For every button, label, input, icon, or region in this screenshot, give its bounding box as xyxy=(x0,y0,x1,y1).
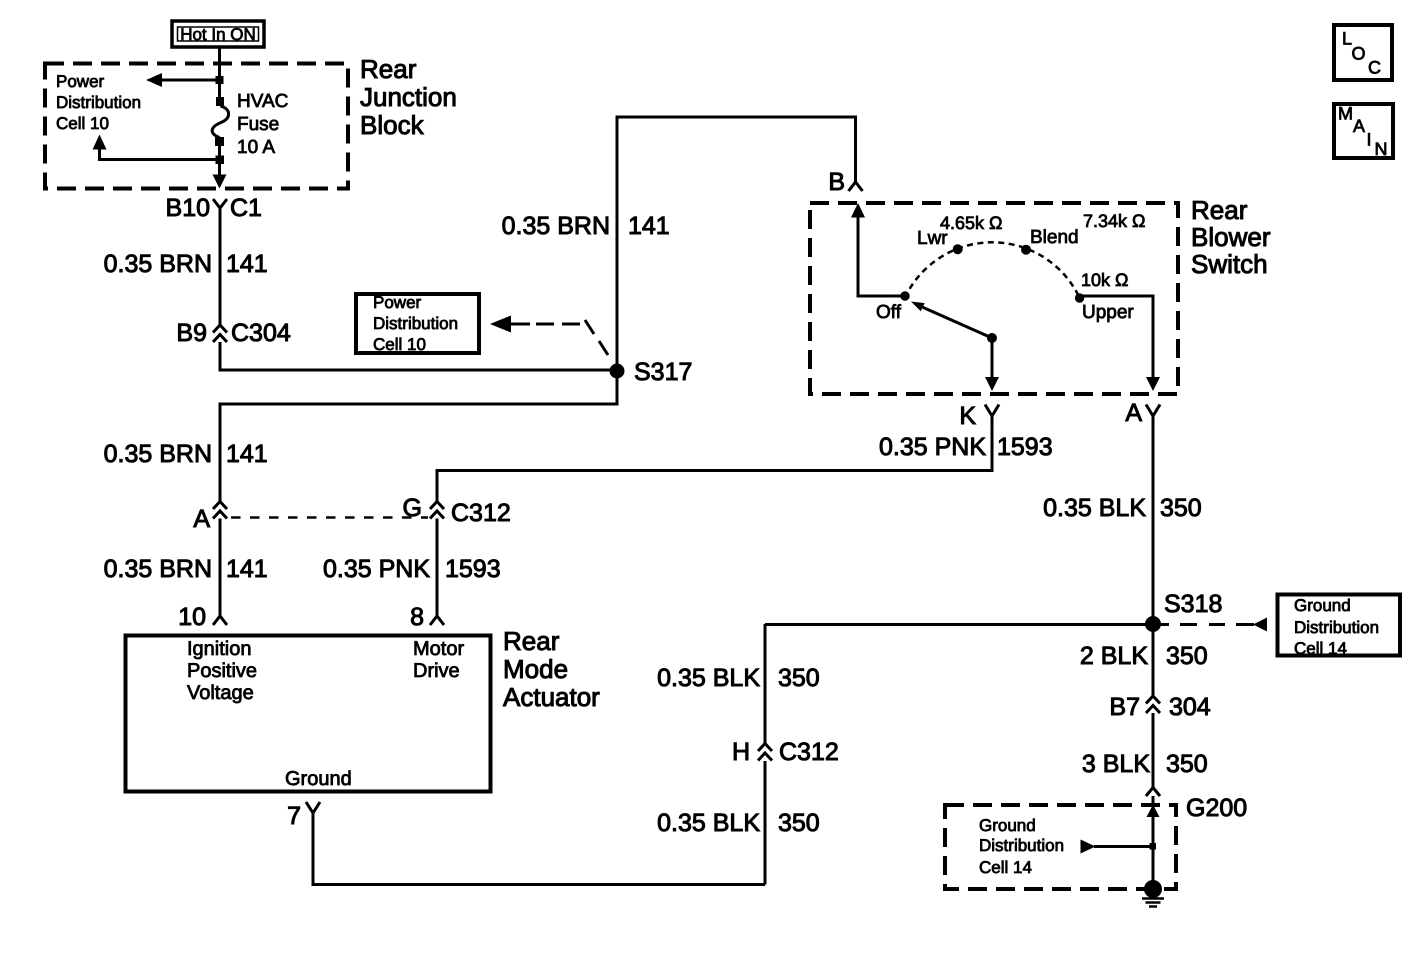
connector A (blower) xyxy=(1146,405,1160,417)
svg-text:0.35 BRN: 0.35 BRN xyxy=(502,212,610,240)
Hot In ON box xyxy=(172,21,264,47)
junction square (arrow tap) xyxy=(216,76,224,84)
svg-text:Hot In ON: Hot In ON xyxy=(180,25,256,44)
down arrow to B10 xyxy=(213,163,227,189)
arrow to Power Distribution (left) xyxy=(146,73,219,87)
svg-text:10k Ω: 10k Ω xyxy=(1081,270,1128,290)
arrow tap up to Power Distribution Cell 10 xyxy=(93,135,220,162)
svg-text:0.35 BLK: 0.35 BLK xyxy=(657,809,760,837)
svg-text:A: A xyxy=(1125,399,1142,427)
svg-text:G200: G200 xyxy=(1186,794,1247,822)
horizontal wire to S318 xyxy=(765,623,1153,626)
svg-text:L: L xyxy=(1342,29,1352,49)
svg-text:350: 350 xyxy=(1160,494,1202,522)
svg-text:141: 141 xyxy=(226,440,268,468)
svg-text:0.35 BLK: 0.35 BLK xyxy=(1043,494,1146,522)
svg-text:B9: B9 xyxy=(176,319,207,347)
dashed line A to G xyxy=(231,516,428,519)
Upper to A wire arrow xyxy=(1082,296,1160,391)
connector B9 C304 xyxy=(213,325,227,342)
connector B xyxy=(849,182,863,191)
wire S317 down-left xyxy=(220,371,617,502)
svg-text:B10: B10 xyxy=(166,194,210,222)
wire G down to pin 8 xyxy=(436,519,439,617)
arrow up from Off position to B xyxy=(851,203,903,296)
connector H C312 xyxy=(758,744,772,761)
svg-text:0.35 BRN: 0.35 BRN xyxy=(104,440,212,468)
connector B7 304 xyxy=(1146,696,1160,713)
svg-text:C304: C304 xyxy=(231,319,291,347)
svg-text:1593: 1593 xyxy=(997,433,1053,461)
svg-text:G: G xyxy=(403,494,422,522)
right arrow tap (ground distribution) xyxy=(1081,840,1157,854)
wire pin 7 down and right xyxy=(313,813,765,885)
wire B9 down and right to S317 xyxy=(220,342,617,370)
svg-text:350: 350 xyxy=(778,664,820,692)
svg-text:B7: B7 xyxy=(1109,693,1140,721)
svg-text:7: 7 xyxy=(287,802,301,830)
svg-text:MotorDrive: MotorDrive xyxy=(413,638,464,682)
svg-text:141: 141 xyxy=(226,555,268,583)
svg-text:3 BLK: 3 BLK xyxy=(1082,750,1150,778)
svg-text:I: I xyxy=(1367,130,1372,150)
Ground Distribution Cell 14 dashed box (G200) xyxy=(945,805,1176,889)
pin 10 connector xyxy=(213,616,227,625)
svg-text:H: H xyxy=(732,738,750,766)
wiper arm with arrow xyxy=(911,302,997,344)
svg-text:C: C xyxy=(1368,58,1381,78)
svg-text:0.35 BRN: 0.35 BRN xyxy=(104,250,212,278)
svg-text:2 BLK: 2 BLK xyxy=(1080,642,1148,670)
Rear Blower Switch dashed box xyxy=(810,203,1178,394)
wire B7 down xyxy=(1152,713,1155,788)
svg-text:C1: C1 xyxy=(230,194,262,222)
svg-text:7.34k Ω: 7.34k Ω xyxy=(1083,211,1146,231)
svg-text:0.35 BRN: 0.35 BRN xyxy=(104,555,212,583)
svg-text:B: B xyxy=(828,168,845,196)
svg-text:0.35 PNK: 0.35 PNK xyxy=(323,555,430,583)
LOC box xyxy=(1334,25,1392,80)
svg-text:N: N xyxy=(1375,139,1388,159)
Ground Distribution Cell 14 box xyxy=(1278,595,1401,656)
svg-text:304: 304 xyxy=(1169,693,1211,721)
svg-text:350: 350 xyxy=(1166,642,1208,670)
vertical wire up to S318 horizontal xyxy=(764,761,767,885)
svg-text:0.35 BLK: 0.35 BLK xyxy=(657,664,760,692)
dashed arrow from S317 to Power Distribution box xyxy=(490,316,608,356)
svg-text:10: 10 xyxy=(178,603,206,631)
wire A down to pin 10 xyxy=(219,519,222,617)
pin 8 connector xyxy=(430,616,444,625)
wire A down to S318 xyxy=(1152,416,1155,696)
wire K down and left to G xyxy=(437,416,992,502)
wire below fuse xyxy=(218,146,221,157)
wire to fuse xyxy=(218,84,221,99)
Upper contact dot xyxy=(1075,293,1084,302)
svg-text:O: O xyxy=(1352,44,1366,64)
Off contact dot xyxy=(900,291,909,300)
pin 7 connector xyxy=(306,802,320,813)
arrow up to G200 xyxy=(1147,805,1160,883)
wire B10 to B9, 0.35 BRN 141 xyxy=(219,208,222,325)
MAIN box xyxy=(1334,104,1393,160)
Power Distribution Cell 10 box xyxy=(356,294,479,353)
svg-text:350: 350 xyxy=(778,809,820,837)
svg-text:C312: C312 xyxy=(779,738,839,766)
G200 connector chevron xyxy=(1146,788,1160,797)
dashed arrow S318 to Ground Distribution xyxy=(1157,618,1267,632)
svg-text:0.35 PNK: 0.35 PNK xyxy=(879,433,986,461)
svg-text:8: 8 xyxy=(410,603,424,631)
ground node dot xyxy=(1144,880,1162,898)
Rear Junction Block dashed box xyxy=(45,64,348,189)
wiper to K arrow xyxy=(985,341,999,391)
connector B10 C1 xyxy=(213,199,227,208)
dotted resistor arc xyxy=(905,242,1080,298)
svg-text:S317: S317 xyxy=(634,358,692,386)
connector A (C312) xyxy=(213,502,227,519)
svg-text:Ground: Ground xyxy=(285,768,352,790)
svg-text:M: M xyxy=(1338,104,1353,124)
connector G C312 xyxy=(430,502,444,519)
svg-text:A: A xyxy=(1353,116,1365,136)
svg-text:141: 141 xyxy=(226,250,268,278)
ground symbol xyxy=(1142,899,1164,907)
svg-text:Blend: Blend xyxy=(1030,227,1079,248)
fuse HVAC 10A xyxy=(212,97,228,146)
svg-text:Upper: Upper xyxy=(1082,302,1134,323)
Lwr contact dot xyxy=(953,244,963,254)
vertical wire down to S317 and top horizontal to B xyxy=(617,117,856,371)
svg-text:IgnitionPositiveVoltage: IgnitionPositiveVoltage xyxy=(187,638,257,704)
svg-text:A: A xyxy=(193,505,210,533)
svg-text:350: 350 xyxy=(1166,750,1208,778)
splice S318 xyxy=(1145,616,1161,632)
junction dot xyxy=(216,156,225,165)
svg-text:K: K xyxy=(959,402,976,430)
svg-text:C312: C312 xyxy=(451,499,511,527)
svg-text:4.65k Ω: 4.65k Ω xyxy=(940,213,1003,233)
Blend contact dot xyxy=(1021,245,1031,255)
svg-text:1593: 1593 xyxy=(445,555,501,583)
connector K xyxy=(985,405,999,417)
Rear Mode Actuator box xyxy=(126,636,491,792)
wire from Hot In ON into junction block xyxy=(218,47,221,78)
svg-text:141: 141 xyxy=(628,212,670,240)
splice S317 xyxy=(610,364,625,379)
svg-text:S318: S318 xyxy=(1164,590,1222,618)
svg-text:Off: Off xyxy=(876,302,902,323)
